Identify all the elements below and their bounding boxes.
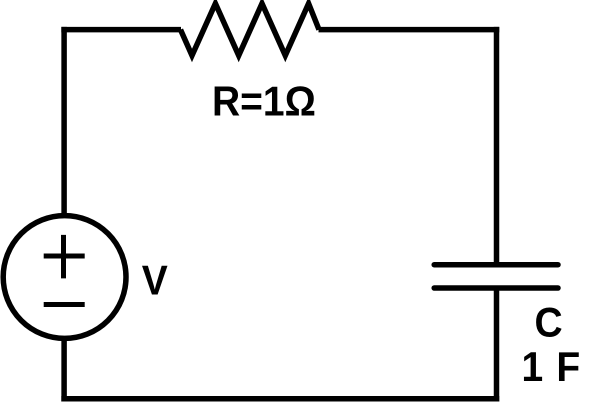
svg-text:R=1Ω: R=1Ω: [212, 77, 316, 125]
voltage source plus sign: [44, 235, 85, 279]
wire bottom horizontal: [61, 396, 499, 402]
wire right vertical upper (R to capacitor top plate): [494, 27, 500, 265]
resistor R1 zigzag body: [181, 4, 320, 56]
voltage source V circle body: [3, 216, 126, 339]
voltage source minus sign: [44, 302, 85, 307]
wire top right horizontal: [319, 27, 500, 33]
wire left vertical (top section, node between V+ and R): [61, 27, 67, 218]
wire top left horizontal: [61, 27, 181, 33]
wire left vertical (bottom section, V- to bottom): [61, 338, 67, 402]
svg-text:C: C: [535, 298, 563, 346]
svg-text:V: V: [142, 256, 168, 304]
capacitor C1 top plate: [434, 262, 558, 268]
svg-text:1 F: 1 F: [522, 342, 582, 390]
capacitor C1 bottom plate: [434, 285, 558, 291]
wire right vertical lower (capacitor bottom plate to bottom): [494, 288, 500, 402]
